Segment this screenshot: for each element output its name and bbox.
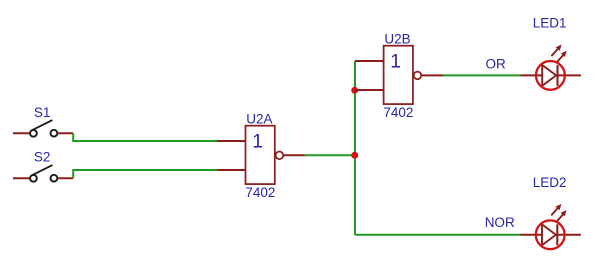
- wire U2A output to node: [305, 154, 356, 156]
- svg-text:S2: S2: [34, 149, 51, 164]
- svg-text:7402: 7402: [245, 185, 275, 200]
- svg-text:LED1: LED1: [533, 15, 567, 30]
- svg-text:U2B: U2B: [384, 32, 410, 47]
- junction dot at U2A output: [351, 152, 358, 159]
- svg-text:S1: S1: [34, 105, 51, 120]
- wire node to LED2: [355, 234, 521, 236]
- svg-text:OR: OR: [486, 56, 507, 71]
- LED1: [521, 45, 581, 90]
- switch S1: [13, 120, 73, 137]
- wire S2 to U2A input 2: [73, 170, 217, 178]
- vertical net wire: [354, 61, 356, 235]
- svg-text:1: 1: [390, 52, 401, 73]
- svg-text:7402: 7402: [383, 105, 413, 120]
- wire U2B output to LED1: [443, 74, 520, 76]
- svg-text:LED2: LED2: [533, 175, 567, 190]
- LED2: [521, 204, 581, 249]
- wire S1 to U2A input 1: [73, 133, 217, 141]
- svg-text:NOR: NOR: [485, 215, 515, 230]
- svg-text:1: 1: [252, 132, 263, 153]
- NOR gate U2A: [218, 126, 305, 184]
- switch S2: [13, 165, 73, 182]
- junction dot at U2B input 2: [351, 87, 358, 94]
- NOR gate U2B: [355, 46, 443, 104]
- svg-text:U2A: U2A: [246, 112, 272, 127]
